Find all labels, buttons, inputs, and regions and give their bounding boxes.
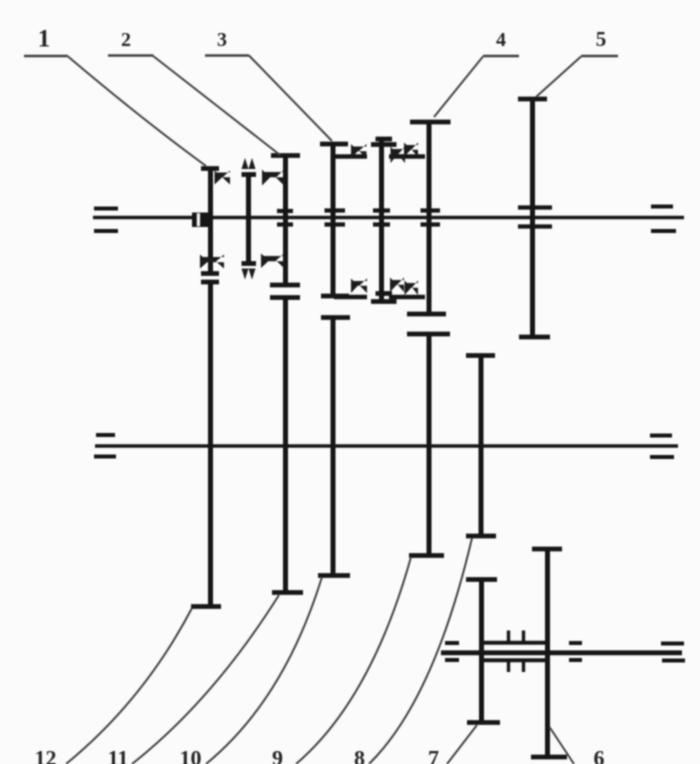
svg-text:8: 8 (354, 746, 365, 764)
svg-text:11: 11 (108, 746, 129, 764)
svg-text:10: 10 (180, 746, 202, 764)
svg-text:2: 2 (121, 29, 131, 51)
svg-text:4: 4 (496, 29, 506, 51)
svg-text:12: 12 (35, 746, 57, 764)
svg-text:7: 7 (428, 746, 439, 764)
svg-text:6: 6 (594, 746, 605, 764)
svg-text:3: 3 (217, 29, 227, 51)
svg-text:5: 5 (596, 27, 607, 51)
svg-text:9: 9 (272, 746, 283, 764)
svg-text:1: 1 (38, 26, 51, 53)
